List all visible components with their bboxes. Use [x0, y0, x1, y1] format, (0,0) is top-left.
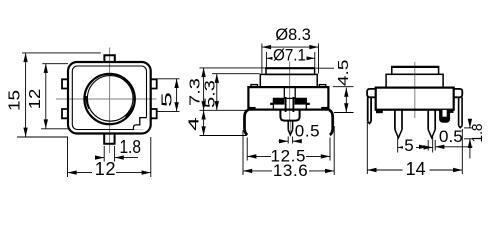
pin tube right line: [292, 97, 294, 112]
svg-text:14: 14: [406, 159, 426, 179]
dim 14 text: [403, 159, 430, 179]
stem line right: [294, 87, 296, 98]
left outer leg: [368, 97, 371, 123]
right inner pin: [428, 110, 435, 130]
dim 8.3 line: [262, 46, 319, 48]
pin centerline: [289, 121, 291, 137]
seat flange right: [306, 103, 310, 105]
seat flange left: [270, 103, 273, 105]
dim 0.5 front ext right: [292, 137, 294, 144]
seat black band left: [274, 99, 285, 105]
dim 12.5 ext left: [246, 138, 248, 161]
dim 14 line: [367, 169, 462, 171]
dim 7.3 line: [203, 68, 205, 110]
cap top rect: [392, 67, 439, 74]
svg-text:4: 4: [185, 117, 202, 131]
svg-text:15: 15: [7, 90, 24, 111]
right lower bump: [150, 109, 157, 118]
svg-text:4.5: 4.5: [335, 60, 352, 87]
dim 7.3 ext top: [200, 67, 266, 69]
svg-text:12: 12: [27, 89, 44, 110]
dim 12 bottom text: [92, 159, 116, 179]
svg-text:13.6: 13.6: [273, 161, 309, 180]
left inner pin taper: [395, 130, 402, 138]
dim 12.5 text: [271, 147, 307, 166]
button outer circle: [84, 74, 134, 124]
left upper bump: [62, 79, 69, 88]
body outer outline: [68, 62, 151, 134]
left ear: [251, 85, 258, 88]
horizontal centerline: [56, 98, 157, 100]
dim 0.5 side left arrow: [420, 146, 429, 148]
dim 12.5 line: [247, 155, 330, 157]
dim 0.5 front right arrow: [293, 140, 301, 142]
dim 13.6 line: [243, 170, 334, 172]
svg-text:5.3: 5.3: [202, 80, 219, 108]
pin tube left line: [285, 97, 287, 112]
dim 1.8 extension right: [114, 146, 116, 162]
dim 0.5 side right arrow with tail: [435, 146, 472, 148]
dim 4 ext bottom: [200, 135, 247, 137]
right outer leg: [459, 97, 463, 127]
left lower bump: [62, 109, 69, 118]
dim 1.8 ext bottom: [464, 138, 473, 140]
cap top rect: [266, 68, 315, 74]
body rect: [248, 87, 328, 110]
right ear: [319, 85, 326, 88]
contact cup white notch: [443, 110, 447, 117]
cup: [280, 110, 299, 121]
seating ext line: [200, 109, 250, 111]
dim 15 extension bottom: [17, 136, 68, 138]
dim 1.8 ext top: [464, 127, 473, 129]
body inner outline: [72, 66, 146, 130]
black contact cup: [439, 110, 450, 123]
dim 0.5 front left arrow: [279, 140, 289, 142]
dim 1.8 top arrow: [469, 120, 471, 128]
vertical centerline: [289, 61, 291, 121]
svg-text:5: 5: [159, 92, 176, 107]
right leg: [329, 110, 333, 135]
center pin shaft: [288, 121, 292, 130]
dim 13.6 ext left: [242, 130, 244, 175]
dim 5.3 line: [216, 74, 218, 111]
left leg: [245, 110, 249, 135]
center pin taper: [288, 130, 292, 135]
left foot: [248, 107, 256, 110]
svg-text:Ø7.1: Ø7.1: [273, 46, 306, 65]
dim 12.5 ext right: [329, 138, 331, 161]
cap second rect: [260, 74, 317, 87]
dim 4.5 ext bottom: [334, 112, 354, 114]
dim 12 left line: [45, 64, 47, 129]
left inner pin: [395, 110, 402, 130]
left foot: [376, 110, 383, 114]
right foot: [321, 107, 329, 110]
dim 4 line: [203, 110, 205, 135]
dim 0.5 side text: [439, 127, 465, 146]
dim 5 side line: [398, 146, 433, 148]
vertical centerline: [414, 62, 416, 118]
bottom tab: [104, 133, 114, 144]
dim 1.8 right arrow with tail: [115, 157, 138, 159]
dim 4.5 ext body top: [333, 86, 354, 88]
dim 8.3 ext left: [261, 44, 263, 74]
inner outline notch step: [133, 118, 146, 131]
dim 5 extension bottom: [157, 110, 180, 112]
right ear: [454, 89, 463, 97]
notch erase patch: [133, 117, 147, 130]
button inner circle: [87, 76, 133, 122]
cap top edge thick: [391, 66, 439, 68]
dim 14 ext left: [366, 122, 368, 174]
svg-text:5: 5: [404, 136, 414, 155]
dim 4.5 ext cap top: [316, 67, 334, 69]
right upper bump: [150, 79, 157, 88]
seat outline: [273, 98, 306, 109]
dim 5.3 ext top: [212, 73, 260, 75]
dim 1.8 extension left: [103, 146, 105, 162]
svg-text:12: 12: [95, 159, 117, 179]
svg-text:0.5: 0.5: [295, 122, 320, 141]
dim 7.1 text: [273, 46, 307, 65]
dim 7.1 ext left: [265, 52, 267, 67]
svg-text:1.8: 1.8: [119, 137, 141, 157]
arc accent lower-left: [86, 96, 89, 109]
dim 5 side text: [403, 136, 416, 155]
dim 15 line: [25, 53, 27, 137]
dim 12 bottom line: [68, 172, 151, 174]
body rect: [376, 88, 454, 110]
dim 5 side ext right: [432, 137, 434, 153]
cap second rect: [386, 74, 443, 87]
dim 0.5 front ext left: [287, 137, 289, 144]
seat black band right: [295, 99, 306, 105]
dim 14 ext right: [461, 129, 463, 174]
svg-text:0.5: 0.5: [439, 127, 463, 146]
vertical centerline: [109, 48, 111, 154]
arc accent lower-right: [125, 106, 133, 117]
right foot: [447, 110, 454, 113]
dim 12 bottom extension right: [150, 137, 152, 177]
dim 8.3 ext right: [318, 44, 320, 74]
dim 13.6 ext right: [333, 126, 335, 175]
dim 12 left extension bottom: [41, 128, 68, 130]
dim 12 left extension top: [42, 63, 68, 65]
dim 7.1 line: [266, 57, 314, 59]
dim 12 bottom extension left: [67, 137, 69, 177]
svg-text:Ø8.3: Ø8.3: [275, 25, 311, 44]
right inner pin taper: [428, 130, 435, 138]
top tab: [104, 55, 114, 63]
stem line left: [283, 87, 285, 98]
dim 1.8 left arrow: [95, 157, 104, 159]
dim 0.5 side ext right: [434, 140, 436, 151]
dim 7.1 ext right: [314, 52, 316, 67]
dim 5 extension top: [157, 78, 180, 80]
dim 1.8 bottom arrow with tail: [469, 139, 471, 159]
cap top edge thick: [265, 67, 315, 69]
dim 5 line: [176, 79, 178, 112]
dim 4.5 line: [345, 88, 347, 113]
dim 15 extension top: [22, 52, 101, 54]
dim 5 side ext left: [397, 137, 399, 153]
dim 0.5 side ext left: [427, 140, 429, 151]
left ear: [367, 89, 376, 97]
dim 13.6 text: [272, 161, 309, 180]
svg-text:1.8: 1.8: [469, 124, 486, 143]
